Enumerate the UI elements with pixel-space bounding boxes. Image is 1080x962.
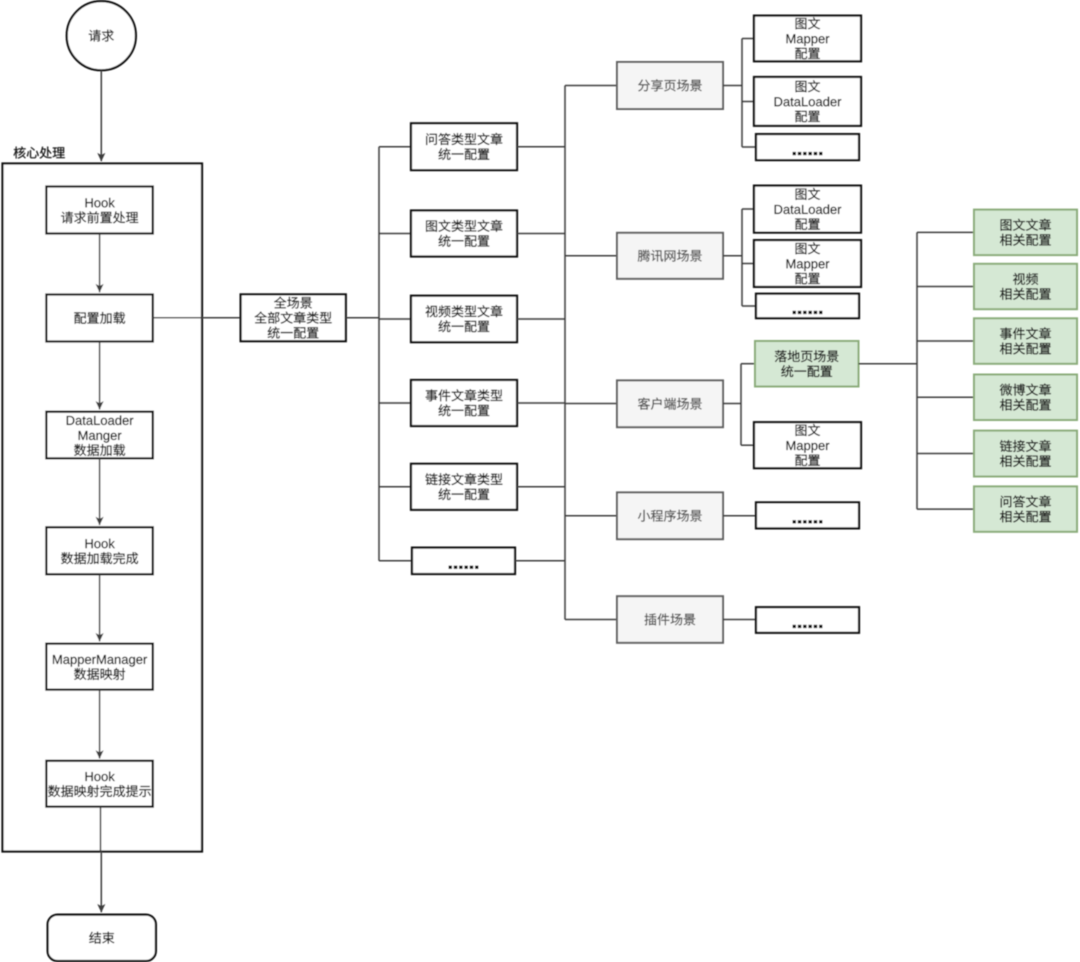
wire bus5 to 落地页场景: [741, 363, 755, 365]
green box 微博文章 相关配置: [974, 375, 1077, 421]
cropped gray mark above 请求 circle: [96, 0, 106, 2]
scene box 腾讯网场景: [617, 233, 723, 279]
green box 视频 相关配置: [974, 264, 1077, 309]
scene box 插件场景: [617, 596, 723, 643]
wire 视频类型文章 to bus2: [517, 318, 565, 320]
green box 链接文章 相关配置: [974, 431, 1077, 477]
wire bus1 to 视频类型文章: [379, 318, 411, 320]
process box Hook 请求前置处理: [46, 187, 152, 234]
wire 全场景 to bus1: [346, 317, 379, 319]
scene box 客户端场景: [617, 380, 723, 427]
wire Hook to 配置加载: [99, 234, 101, 293]
bus4 vertical trunk: [741, 209, 743, 306]
wire bus4 to 省略框2: [742, 305, 756, 307]
bus1 vertical trunk: [378, 147, 380, 561]
wire bus2 to 腾讯网场景: [565, 255, 617, 257]
wire bus1 to 事件文章类型: [379, 402, 411, 404]
wire 请求 to 核心处理 frame: [100, 71, 102, 162]
wire bus2 to 小程序场景: [565, 515, 617, 517]
config box 图文 Mapper 配置 (分享页): [754, 16, 861, 62]
wire bus6 to 问答文章相关配置: [917, 508, 974, 510]
wire 分享页场景 to bus3: [723, 85, 742, 87]
ellipsis box 插件省略: [756, 607, 859, 633]
box 全场景 全部文章类型 统一配置: [241, 294, 346, 341]
wire bus6 to 事件文章相关配置: [917, 340, 974, 342]
wire DataLoader to Hook 数据加载完成: [99, 459, 101, 526]
wire bus6 to 视频相关配置: [917, 286, 974, 288]
bus5 vertical trunk: [740, 364, 742, 446]
wire bus5 to 图文Mapper配置3: [741, 444, 754, 446]
config box 图文 DataLoader 配置 (分享页): [754, 77, 861, 126]
process box MapperManager 数据映射: [46, 644, 152, 690]
bus6 vertical trunk: [916, 232, 918, 509]
wire 链接文章类型 to bus2: [517, 486, 565, 488]
wire 客户端场景 to bus5: [723, 403, 741, 405]
process box 配置加载: [46, 295, 152, 342]
type box 视频类型文章 统一配置: [411, 296, 517, 343]
bus2 vertical trunk: [564, 86, 566, 620]
wire 配置加载 to DataLoader: [99, 342, 101, 410]
wire bus3 to 图文DataLoader配置: [742, 101, 754, 103]
ellipsis box 类型省略: [412, 548, 515, 574]
wire bus4 to 图文DataLoader配置2: [742, 208, 754, 210]
wire bus3 to 图文Mapper配置: [742, 38, 754, 40]
wire 小程序场景 to 省略框4: [723, 515, 756, 517]
wire bus6 to 微博文章相关配置: [917, 396, 974, 398]
config box 图文 Mapper 配置 (客户端): [754, 422, 861, 468]
wire 图文类型文章 to bus2: [517, 233, 565, 235]
wire Hook 数据加载完成 to MapperManager: [99, 574, 101, 641]
scene box 分享页场景: [617, 62, 723, 109]
green box 问答文章 相关配置: [974, 486, 1077, 531]
wire 问答类型文章 to bus2: [517, 146, 565, 148]
ellipsis box 腾讯网省略: [756, 294, 859, 319]
green box 落地页场景 统一配置: [755, 341, 859, 387]
wire 插件场景 to 省略框5: [723, 619, 756, 621]
wire 类型省略 to bus2: [515, 560, 565, 562]
wire frame bottom to 结束: [100, 852, 102, 913]
type box 事件文章类型 统一配置: [411, 380, 517, 426]
wire bus2 to 插件场景: [565, 619, 617, 621]
wire bus1 to 图文类型文章: [379, 233, 411, 235]
wire 配置加载 to 全场景: [153, 317, 241, 319]
type box 问答类型文章 统一配置: [411, 123, 517, 170]
process box Hook 数据加载完成: [46, 527, 152, 574]
ellipsis box 分享页省略: [756, 134, 859, 160]
process box Hook 数据映射完成提示: [46, 761, 152, 807]
container frame 核心处理: [3, 164, 203, 852]
wire 事件文章类型 to bus2: [517, 402, 565, 404]
ellipsis box 小程序省略: [756, 502, 859, 528]
wire bus6 to 图文文章相关配置: [917, 231, 974, 233]
green box 事件文章 相关配置: [974, 318, 1077, 364]
wire bus4 to 图文Mapper配置2: [742, 263, 754, 265]
process box DataLoader Manger 数据加载: [46, 412, 152, 459]
wire bus1 to 省略框: [379, 560, 412, 562]
wire MapperManager to Hook 数据映射完成提示: [99, 690, 101, 759]
wire bus1 to 链接文章类型: [379, 486, 411, 488]
node start circle 请求: [67, 1, 136, 70]
scene box 小程序场景: [617, 492, 723, 539]
green box 图文文章 相关配置: [974, 210, 1077, 256]
type box 图文类型文章 统一配置: [411, 211, 517, 257]
terminator box 结束: [48, 915, 156, 961]
wire bus6 to 链接文章相关配置: [917, 453, 974, 455]
wire bus2 to 分享页场景: [565, 85, 617, 87]
config box 图文 Mapper 配置 (腾讯网): [754, 240, 861, 287]
config box 图文 DataLoader 配置 (腾讯网): [754, 186, 861, 233]
wire Hook 数据映射完成提示 to frame bottom: [100, 807, 102, 852]
wire bus3 to 省略框1: [742, 146, 756, 148]
wire bus2 to 客户端场景: [565, 403, 617, 405]
wire bus1 to 问答类型文章: [379, 146, 411, 148]
bus3 vertical trunk: [741, 39, 743, 148]
label 核心处理: [14, 147, 65, 159]
type box 链接文章类型 统一配置: [411, 464, 517, 510]
wire 腾讯网场景 to bus4: [723, 255, 742, 257]
wire 落地页场景 to bus6: [859, 363, 918, 365]
